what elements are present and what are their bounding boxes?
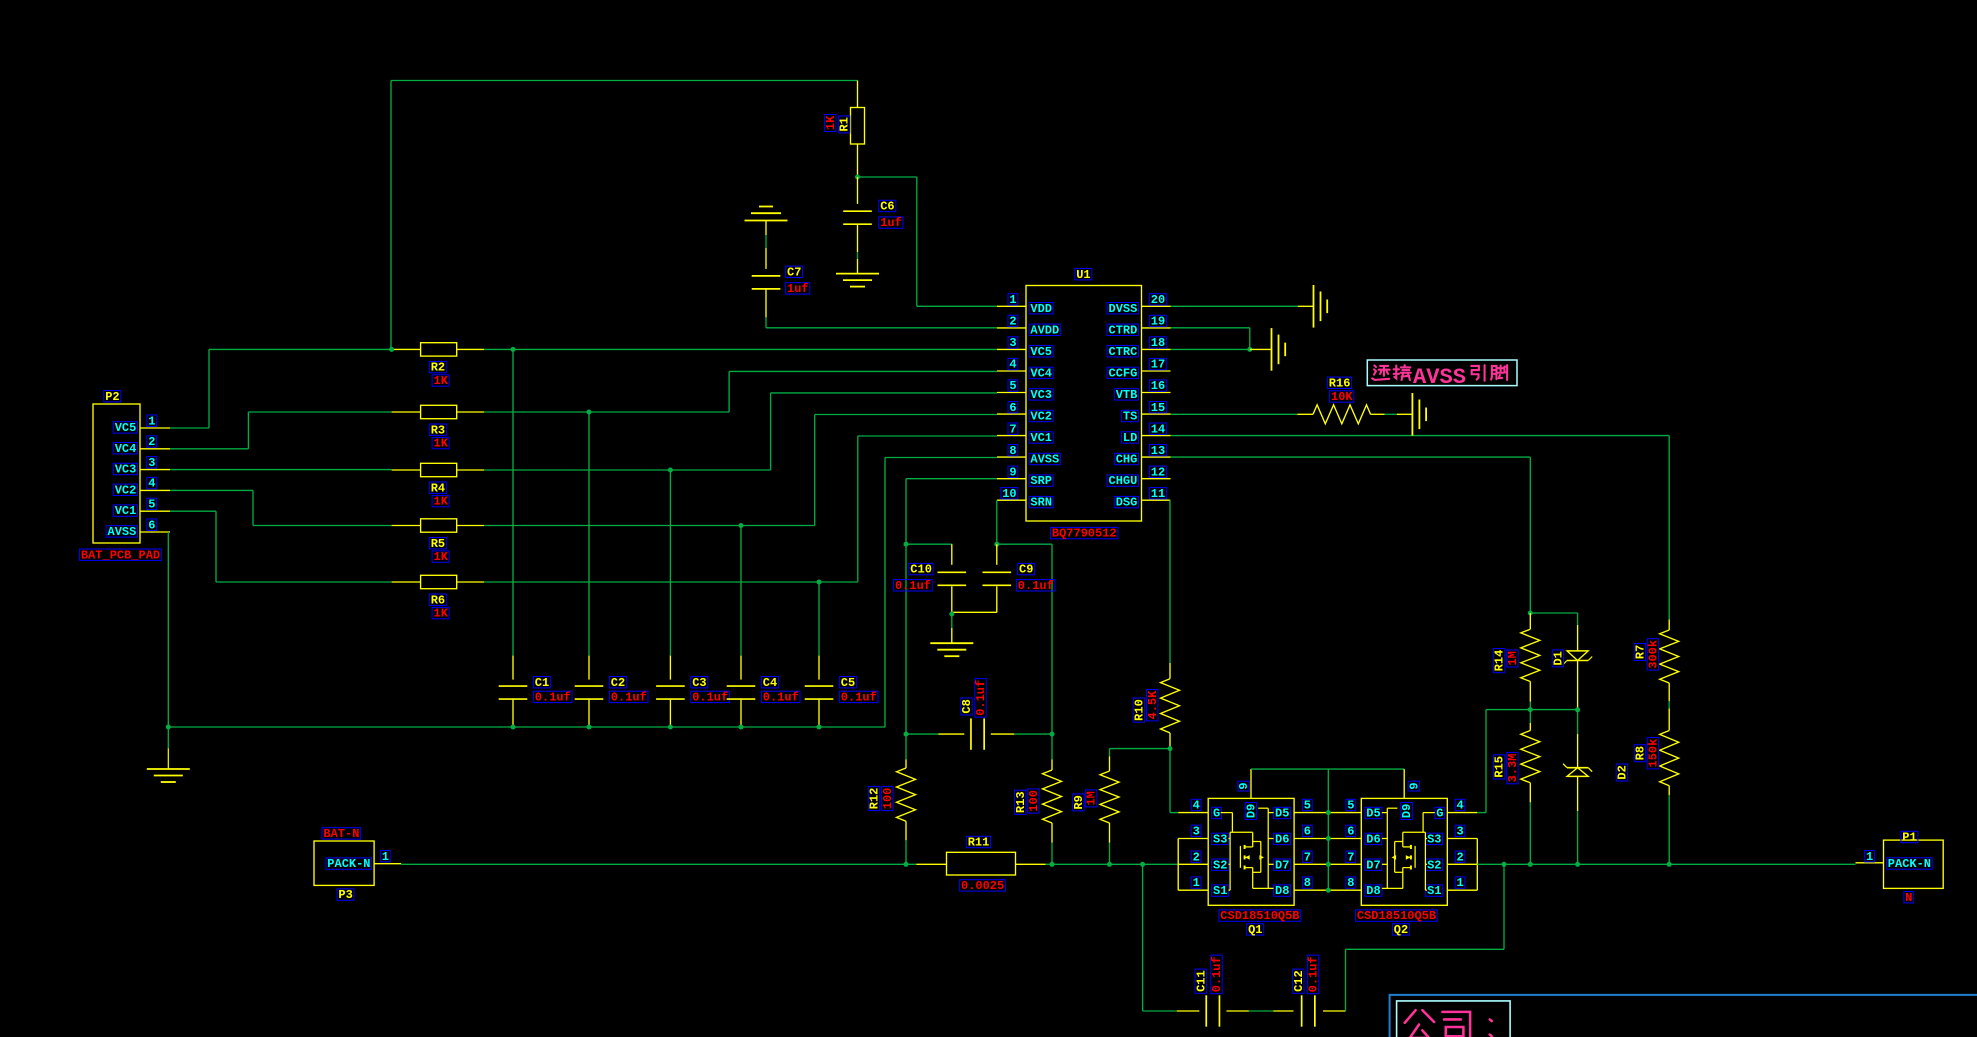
svg-text:3: 3 [1457, 825, 1464, 839]
svg-text:1K: 1K [434, 607, 449, 621]
svg-text:C6: C6 [880, 200, 894, 214]
svg-text:D8: D8 [1275, 884, 1289, 898]
svg-text:D6: D6 [1366, 833, 1380, 847]
U1 pin 4 number [1008, 358, 1018, 369]
title text 公司： [1405, 1010, 1434, 1037]
U1 pin 16 number [1149, 380, 1166, 391]
resistor R12 [905, 734, 907, 759]
svg-text:AVDD: AVDD [1030, 323, 1059, 337]
svg-text:1M: 1M [1506, 651, 1520, 665]
svg-text:R1: R1 [838, 117, 852, 131]
resistor R5 [392, 525, 421, 527]
label C7 value 1uf [786, 283, 810, 294]
resistor R6 [392, 581, 421, 583]
U1 pin 19 (CTRD) lead [1142, 327, 1171, 329]
wire SRP down to C8 left [905, 544, 907, 734]
svg-text:2: 2 [1193, 850, 1200, 864]
svg-text:VC2: VC2 [115, 483, 137, 497]
label R9 value [1085, 790, 1099, 807]
label R15 value [1506, 752, 1520, 783]
svg-text:DVSS: DVSS [1109, 302, 1138, 316]
svg-text:DSG: DSG [1116, 496, 1138, 510]
svg-text:5: 5 [1347, 799, 1354, 813]
ground TS rotated [1411, 393, 1413, 436]
wire SRN to C8 right riser [997, 543, 1052, 545]
resistor R14 [1529, 613, 1531, 629]
svg-text:0.1uf: 0.1uf [611, 691, 647, 705]
U1 pin 19 name [1107, 324, 1138, 335]
IC U1 body [1026, 286, 1142, 522]
label R10 ref [1133, 698, 1147, 722]
label P2 part BAT_PCB_PAD [80, 549, 162, 560]
node C8 right junction [1050, 732, 1055, 737]
svg-text:C9: C9 [1019, 563, 1033, 577]
node D8 pad junction [1326, 888, 1331, 893]
svg-text:AVSS: AVSS [1030, 453, 1059, 467]
U1 pin 15 number [1149, 402, 1166, 413]
U1 pin 13 name [1114, 453, 1138, 464]
P2 pin 2 name [113, 443, 137, 454]
wire C12 up to source rail [1345, 949, 1347, 1011]
label C7 ref [786, 266, 803, 277]
node C1 tap [511, 347, 516, 352]
P2 pin 3 name [113, 463, 137, 474]
U1 pin 14 (LD) lead [1142, 435, 1171, 437]
label R10 value [1146, 689, 1160, 720]
resistor R2 [392, 348, 421, 350]
wire Q1 D5 to Q2 D5 (pin 5) [1294, 812, 1361, 814]
svg-text:D9: D9 [1400, 804, 1414, 818]
svg-text:PACK-N: PACK-N [327, 857, 370, 871]
svg-text:3: 3 [1193, 825, 1200, 839]
U1 pin 10 name [1029, 496, 1053, 507]
svg-text:100: 100 [1027, 790, 1041, 812]
label R4 ref [429, 482, 446, 493]
svg-text:0.1uf: 0.1uf [1307, 956, 1321, 992]
wire rail to C11 [1140, 862, 1145, 867]
label P1 net N [1904, 892, 1914, 903]
U1 pin 11 name [1114, 496, 1138, 507]
resistor R4 [392, 469, 421, 471]
svg-text:0.1uf: 0.1uf [1210, 956, 1224, 992]
svg-text:VTB: VTB [1116, 388, 1138, 402]
wire R3 to VC4 pin4 [484, 411, 729, 413]
svg-text:CCFG: CCFG [1109, 367, 1138, 381]
wire AVSS pin8 riser [884, 458, 886, 728]
label C4 ref [761, 677, 778, 688]
P3 pin 1 number [380, 851, 390, 862]
label Q2 part CSD18510Q5B [1356, 910, 1438, 921]
svg-text:8: 8 [1304, 876, 1311, 890]
Q1 pin name S2 [1212, 859, 1229, 870]
svg-text:300k: 300k [1647, 640, 1661, 669]
U1 pin 11 number [1149, 488, 1166, 499]
svg-text:1: 1 [1009, 293, 1016, 307]
svg-text:CHG: CHG [1116, 453, 1138, 467]
svg-text:VC1: VC1 [115, 504, 137, 518]
Q1 pin name G [1212, 807, 1222, 818]
label C5 ref [839, 677, 856, 688]
P2 pin 2 number [147, 436, 157, 447]
label R11 value [960, 880, 1006, 891]
U1 pin 5 (VC3) lead [997, 392, 1026, 394]
label R16 value 10K [1330, 391, 1354, 402]
svg-text:AVSS: AVSS [1413, 365, 1466, 390]
label C9 ref [1018, 563, 1035, 574]
Q2 pin name D9 rotated [1400, 803, 1414, 820]
resistor R1 [857, 81, 859, 108]
node C3 rail junction [668, 725, 673, 730]
wire VC3 P2.3 to R4 [170, 469, 392, 471]
label R16 ref [1327, 377, 1351, 388]
svg-text:R7: R7 [1634, 645, 1648, 659]
U1 pin 7 number [1008, 423, 1018, 434]
svg-text:D8: D8 [1366, 884, 1380, 898]
P2 pin 5 lead [140, 510, 170, 512]
Q1 pin name D6 [1274, 833, 1291, 844]
Q2 pin name G [1435, 807, 1445, 818]
title block border [1390, 995, 1977, 1037]
U1 pin 1 name [1029, 303, 1053, 314]
node C2 tap [587, 410, 592, 415]
ground at P2 AVSS [167, 727, 169, 748]
U1 pin 6 number [1008, 402, 1018, 413]
label P3 BAT-N [322, 828, 361, 839]
U1 pin 4 name [1029, 367, 1053, 378]
svg-text:1: 1 [148, 414, 155, 428]
svg-text:20: 20 [1151, 293, 1165, 307]
U1 pin 3 (VC5) lead [997, 348, 1026, 350]
wire AVSS P2.6 down to ground rail [167, 532, 169, 727]
svg-text:1uf: 1uf [787, 282, 809, 296]
diode D2 zener [1577, 710, 1579, 734]
U1 pin 17 (CCFG) lead [1142, 370, 1171, 372]
U1 pin 2 (AVDD) lead [997, 327, 1026, 329]
svg-text:1K: 1K [434, 495, 449, 509]
svg-text:VC4: VC4 [1030, 367, 1052, 381]
wire VDD from R1/C6 node to pin1 [858, 176, 917, 178]
wire VC5 P2.1 to R2 [170, 427, 209, 429]
svg-text:D5: D5 [1366, 807, 1380, 821]
svg-text:7: 7 [1347, 850, 1354, 864]
svg-text:3: 3 [1009, 336, 1016, 350]
wire Q1 D6 to Q2 D6 (pin 6) [1294, 838, 1361, 840]
svg-text:1K: 1K [434, 374, 449, 388]
U1 pin 12 name [1107, 475, 1138, 486]
U1 pin 1 (VDD) lead [997, 305, 1026, 307]
svg-text:7: 7 [1304, 850, 1311, 864]
wire SRN pin10 [996, 500, 998, 544]
svg-text:0.1uf: 0.1uf [895, 579, 931, 593]
label R7 ref [1634, 644, 1648, 661]
svg-text:1K: 1K [434, 437, 449, 451]
capacitor C2 [588, 412, 590, 656]
capacitor C6 [857, 177, 859, 204]
svg-text:9: 9 [1237, 782, 1251, 789]
svg-text:LD: LD [1123, 431, 1137, 445]
wire VC2 P2.4 to R5 [170, 489, 253, 491]
wire pad down the middle [1327, 769, 1329, 890]
svg-text:0.1uf: 0.1uf [535, 691, 571, 705]
svg-text:C12: C12 [1292, 970, 1306, 992]
U1 pin 8 name [1029, 453, 1060, 464]
svg-text:BQ7790512: BQ7790512 [1052, 527, 1117, 541]
node source/C12 junction [1502, 862, 1507, 867]
node C4 rail junction [739, 725, 744, 730]
P2 pin 1 lead [140, 427, 170, 429]
svg-text:2: 2 [1457, 850, 1464, 864]
label C3 ref [691, 677, 708, 688]
ground DVSS rotated [1298, 305, 1314, 307]
svg-text:VC4: VC4 [115, 442, 137, 456]
capacitor C3 [669, 470, 671, 656]
Q1 pin3 number [1191, 825, 1201, 836]
node D2 rail junction [1575, 862, 1580, 867]
svg-text:D9: D9 [1245, 804, 1259, 818]
svg-text:R5: R5 [431, 537, 445, 551]
Q1 pin name D5 [1274, 807, 1291, 818]
node C1 rail junction [511, 725, 516, 730]
svg-text:6: 6 [1347, 825, 1354, 839]
svg-text:R10: R10 [1133, 699, 1147, 721]
resistor R15 [1529, 710, 1531, 723]
Q1 pin name D8 [1274, 885, 1291, 896]
svg-text:R6: R6 [431, 593, 445, 607]
svg-text:17: 17 [1151, 358, 1165, 372]
wire CHG node to D1 [1530, 612, 1577, 614]
node D6 pad junction [1326, 836, 1331, 841]
wire SRP pin9 [906, 478, 997, 480]
svg-text:1: 1 [382, 850, 389, 864]
U1 pin 9 name [1029, 475, 1053, 486]
wire AVDD C7 to pin2 [766, 327, 997, 329]
connector P1 body [1884, 840, 1944, 888]
label R14 value [1506, 650, 1520, 667]
svg-text:1K: 1K [824, 115, 838, 130]
label C8 value [974, 679, 988, 718]
svg-text:D2: D2 [1616, 765, 1630, 779]
P2 pin 6 number [147, 519, 157, 530]
Q1 pin name S3 [1212, 833, 1229, 844]
wire CTRC pin18 [1171, 348, 1250, 350]
capacitor C12 [1273, 1010, 1293, 1012]
diode D1 zener [1577, 613, 1579, 625]
wire LD pin14 [1171, 435, 1670, 437]
P2 pin 4 number [147, 477, 157, 488]
node R2 left junction [389, 347, 394, 352]
svg-text:S3: S3 [1213, 833, 1227, 847]
P3 pin 1 lead [374, 863, 401, 865]
label C10 value [894, 580, 933, 591]
svg-text:1: 1 [1457, 876, 1464, 890]
label R2 value 1K [432, 375, 449, 386]
svg-text:4: 4 [1193, 799, 1200, 813]
capacitor C1 [512, 349, 514, 655]
Q1 pin4 number [1191, 799, 1201, 810]
resistor R8 [1668, 709, 1670, 731]
svg-text:D6: D6 [1275, 833, 1289, 847]
power rail symbol above C7 [745, 220, 788, 222]
label R1 value 1K [824, 115, 838, 132]
label C2 ref [609, 677, 626, 688]
label C11 value [1210, 955, 1224, 994]
node R10 bottom junction [1168, 746, 1173, 751]
svg-text:CTRC: CTRC [1109, 345, 1138, 359]
label U1 ref [1075, 269, 1092, 280]
svg-text:S1: S1 [1213, 884, 1227, 898]
Q1 MOSFET symbol [1229, 832, 1231, 890]
wire VC5-top to R1 (net C5/VDD-source) [391, 80, 858, 82]
U1 pin 17 number [1149, 358, 1166, 369]
U1 pin 7 name [1029, 432, 1053, 443]
U1 pin 20 name [1107, 303, 1138, 314]
wire Q1 pin9 pad [1250, 769, 1252, 798]
svg-text:16: 16 [1151, 379, 1165, 393]
label U1 part BQ7790512 [1051, 527, 1118, 538]
svg-text:S3: S3 [1427, 833, 1441, 847]
U1 pin 18 number [1149, 337, 1166, 348]
U1 pin 7 (VC1) lead [997, 435, 1026, 437]
label R9 ref [1072, 794, 1086, 811]
node R1-C6-VDD junction [855, 175, 860, 180]
U1 pin 8 (AVSS) lead [997, 456, 1026, 458]
svg-text:R2: R2 [431, 361, 445, 375]
svg-text:P3: P3 [338, 888, 352, 902]
svg-text:S1: S1 [1427, 884, 1441, 898]
U1 pin 16 name [1114, 389, 1138, 400]
svg-text:Q1: Q1 [1248, 923, 1262, 937]
node C4 tap [739, 523, 744, 528]
label R8 value [1647, 738, 1661, 769]
wire rail P3 to R11 [401, 863, 916, 865]
svg-text:P1: P1 [1902, 831, 1916, 845]
wire R5 to VC2 pin6 [484, 525, 815, 527]
resistor R16 [1297, 413, 1313, 415]
label P2 ref [104, 391, 121, 402]
node SRP junction [904, 542, 909, 547]
svg-text:15: 15 [1151, 401, 1165, 415]
svg-text:8: 8 [1009, 444, 1016, 458]
U1 pin 5 name [1029, 389, 1053, 400]
Q2 pin3 number [1455, 825, 1465, 836]
node SRN junction [994, 542, 999, 547]
svg-text:CSD18510Q5B: CSD18510Q5B [1220, 909, 1299, 923]
label R6 value 1K [432, 607, 449, 618]
wire Q1 D8 to Q2 D8 (pin 8) [1294, 889, 1361, 891]
wire rail R11 to Q1 [1046, 863, 1179, 865]
Q2 pin9 number rotated [1407, 781, 1421, 791]
svg-text:TS: TS [1123, 410, 1137, 424]
svg-text:1M: 1M [1085, 791, 1099, 805]
node C5 tap [817, 580, 822, 585]
U1 pin 15 (TS) lead [1142, 413, 1171, 415]
svg-text:4: 4 [1009, 358, 1016, 372]
label R3 ref [429, 424, 446, 435]
label C3 value [691, 691, 730, 702]
U1 pin 20 number [1149, 294, 1166, 305]
label C8 ref [960, 698, 974, 715]
svg-text:100: 100 [881, 788, 895, 810]
svg-text:3.3M: 3.3M [1506, 754, 1520, 783]
wire CTRD pin19 [1171, 327, 1250, 329]
wire R2 to VC5 pin3 [484, 348, 997, 350]
svg-text:5: 5 [148, 498, 155, 512]
Q1 pins 3/2/1 bracket [1177, 839, 1179, 891]
svg-text:8: 8 [1347, 876, 1354, 890]
label P3 PACK-N [326, 858, 372, 869]
P2 pin 3 number [147, 457, 157, 468]
wire R10 to R9 [1110, 748, 1171, 750]
U1 pin 20 (DVSS) lead [1142, 305, 1171, 307]
svg-text:150k: 150k [1647, 739, 1661, 768]
P2 pin 1 number [147, 415, 157, 426]
svg-text:Q2: Q2 [1394, 923, 1408, 937]
U1 pin 19 number [1149, 315, 1166, 326]
svg-text:VC3: VC3 [1030, 388, 1052, 402]
note box connect AVSS pin [1367, 360, 1517, 386]
svg-text:VC5: VC5 [1030, 345, 1052, 359]
svg-text:D7: D7 [1366, 858, 1380, 872]
svg-text:D7: D7 [1275, 858, 1289, 872]
U1 pin 13 (CHG) lead [1142, 456, 1171, 458]
Q1 pin name D7 [1274, 859, 1291, 870]
wire TS pin15 [1171, 413, 1298, 415]
label C9 value [1016, 580, 1055, 591]
transistor Q1 body [1208, 798, 1294, 905]
P2 pin 5 number [147, 498, 157, 509]
Q2 pin name S2 [1426, 859, 1443, 870]
wire Q2 gate to node [1477, 812, 1486, 814]
svg-text:6: 6 [148, 518, 155, 532]
label C10 ref [909, 563, 933, 574]
svg-text:BAT_PCB_PAD: BAT_PCB_PAD [81, 548, 160, 562]
Q2 pin4 G lead [1447, 812, 1477, 814]
svg-text:4: 4 [148, 477, 155, 491]
U1 pin 13 number [1149, 445, 1166, 456]
wire R10 node to Q1 gate [1169, 749, 1171, 813]
svg-text:3: 3 [148, 456, 155, 470]
U1 pin 10 number [1001, 488, 1018, 499]
svg-text:CTRD: CTRD [1109, 323, 1138, 337]
label D1 ref [1552, 650, 1566, 667]
resistor R11 shunt [916, 863, 946, 865]
wire DVSS pin20 [1171, 305, 1298, 307]
svg-text:R3: R3 [431, 423, 445, 437]
label C11 ref [1194, 969, 1208, 993]
label R1 ref [838, 116, 852, 133]
U1 pin 16 (VTB) lead [1142, 392, 1171, 394]
P2 pin 2 lead [140, 448, 170, 450]
svg-text:6: 6 [1304, 825, 1311, 839]
svg-text:VC3: VC3 [115, 463, 137, 477]
svg-text:VDD: VDD [1030, 302, 1052, 316]
Q1 right pin numbers [1302, 799, 1312, 810]
svg-text:CHGU: CHGU [1109, 474, 1138, 488]
svg-text:7: 7 [1009, 422, 1016, 436]
label R12 ref [868, 786, 882, 810]
svg-text:P2: P2 [105, 390, 119, 404]
svg-text:2: 2 [1009, 315, 1016, 329]
U1 pin 5 number [1008, 380, 1018, 391]
wire CHG pin13 [1171, 456, 1531, 458]
Q2 pin4 number [1455, 799, 1465, 810]
svg-text:S2: S2 [1213, 858, 1227, 872]
svg-text:1: 1 [1193, 876, 1200, 890]
svg-text:R13: R13 [1014, 791, 1028, 813]
svg-text:9: 9 [1407, 782, 1421, 789]
wire DSG pin11 down [1169, 499, 1172, 501]
svg-text:D1: D1 [1552, 651, 1566, 665]
